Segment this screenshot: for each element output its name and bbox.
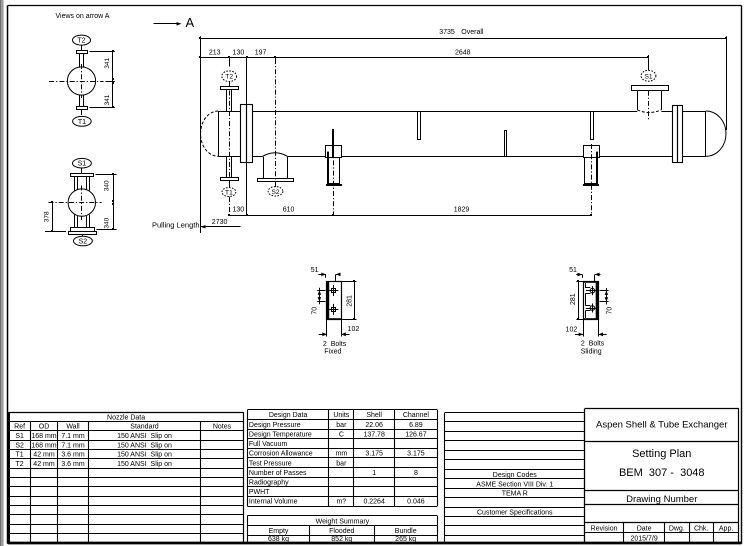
svg-text:bar: bar: [336, 422, 347, 429]
baffle 2: [418, 112, 421, 140]
svg-text:168 mm: 168 mm: [31, 442, 56, 449]
svg-text:Full Vacuum: Full Vacuum: [249, 441, 288, 448]
svg-text:341: 341: [104, 94, 111, 105]
svg-text:197: 197: [255, 49, 267, 56]
end view nozzle T1: [77, 95, 88, 115]
svg-text:Shell: Shell: [366, 412, 382, 419]
svg-text:168 mm: 168 mm: [31, 433, 56, 440]
svg-text:Chk.: Chk.: [694, 525, 708, 532]
nozzle S2 (bottom): [258, 153, 294, 187]
sliding slot 2: [585, 293, 596, 318]
svg-text:Nozzle Data: Nozzle Data: [107, 414, 145, 421]
rear barrel and right head: [683, 111, 726, 156]
svg-text:137.78: 137.78: [363, 431, 385, 438]
svg-text:App.: App.: [719, 525, 733, 532]
svg-text:150 ANSI Slip on: 150 ANSI Slip on: [117, 433, 172, 440]
svg-text:0.2264: 0.2264: [363, 499, 385, 506]
svg-text:340: 340: [103, 180, 110, 191]
svg-text:Notes: Notes: [213, 424, 232, 431]
svg-text:281: 281: [347, 295, 354, 307]
svg-text:0.046: 0.046: [407, 499, 425, 506]
svg-text:340: 340: [103, 217, 110, 228]
svg-text:102: 102: [348, 326, 360, 333]
svg-text:265 kg: 265 kg: [395, 536, 416, 543]
balloon T2 (end view): [73, 35, 91, 45]
svg-text:T1: T1: [16, 452, 24, 459]
svg-text:2 Bolts: 2 Bolts: [581, 340, 605, 347]
svg-text:281: 281: [570, 293, 577, 305]
end view nozzle S2 + base: [69, 215, 97, 237]
balloon S1: [641, 70, 656, 81]
fixed dimension 102: [319, 320, 360, 337]
window edge strip: [0, 0, 4, 546]
svg-text:OD: OD: [39, 424, 50, 431]
nozzle S1 (top): [632, 55, 669, 119]
dimension 378 (end view S): [44, 201, 66, 232]
balloon T1: [222, 188, 236, 197]
channel barrel: [218, 112, 241, 157]
svg-text:130: 130: [233, 49, 245, 56]
svg-text:2015/7/9: 2015/7/9: [630, 536, 657, 543]
sliding dimension 102: [566, 320, 607, 337]
svg-text:2730: 2730: [212, 219, 228, 226]
svg-text:Pulling Length: Pulling Length: [152, 221, 200, 230]
svg-text:42 mm: 42 mm: [33, 461, 55, 468]
baffle 3: [505, 131, 507, 157]
svg-text:T1: T1: [78, 119, 86, 126]
svg-text:Design Codes: Design Codes: [493, 472, 537, 479]
svg-text:PWHT: PWHT: [249, 489, 270, 496]
svg-text:Bundle: Bundle: [395, 528, 417, 535]
svg-text:Number of Passes: Number of Passes: [249, 470, 307, 477]
svg-text:Fixed: Fixed: [324, 348, 341, 355]
svg-text:150 ANSI Slip on: 150 ANSI Slip on: [117, 461, 172, 468]
svg-text:Overall: Overall: [461, 29, 484, 36]
svg-text:Test Pressure: Test Pressure: [249, 460, 292, 467]
sliding base plate: [583, 281, 599, 320]
svg-text:7.1 mm: 7.1 mm: [61, 433, 85, 440]
svg-text:Revision: Revision: [591, 525, 618, 532]
design codes / customer specifications column: [445, 413, 585, 543]
svg-text:126.67: 126.67: [405, 431, 427, 438]
baffle 1: [332, 129, 334, 157]
svg-text:1829: 1829: [454, 207, 470, 214]
svg-text:3.175: 3.175: [365, 451, 383, 458]
svg-text:130: 130: [232, 207, 244, 214]
svg-text:213: 213: [209, 49, 221, 56]
svg-text:3735: 3735: [439, 29, 455, 36]
svg-text:70: 70: [606, 307, 613, 315]
svg-text:Drawing Number: Drawing Number: [626, 494, 697, 505]
svg-text:3.6 mm: 3.6 mm: [61, 461, 85, 468]
label 2 Bolts Sliding: [581, 340, 605, 355]
sliding dimension 70: [600, 288, 614, 314]
end view nozzle T2: [77, 45, 88, 67]
svg-text:Date: Date: [637, 525, 652, 532]
nozzle data table: [9, 412, 244, 542]
svg-text:S1: S1: [78, 161, 87, 168]
svg-text:C: C: [339, 431, 344, 438]
sliding dimension 281: [570, 280, 583, 320]
svg-text:Customer Specifications: Customer Specifications: [477, 510, 553, 517]
nozzle T1 (bottom): [221, 156, 239, 187]
balloon S2 (end view): [74, 236, 93, 246]
svg-text:m?: m?: [336, 499, 346, 506]
design data table: [247, 410, 437, 507]
svg-text:852 kg: 852 kg: [331, 536, 352, 543]
svg-text:341: 341: [104, 57, 111, 68]
baffle 4: [591, 112, 594, 140]
svg-text:Corrosion Allowance: Corrosion Allowance: [249, 451, 313, 458]
svg-text:Standard: Standard: [130, 424, 159, 431]
svg-text:Weight Summary: Weight Summary: [316, 518, 370, 525]
svg-text:Flooded: Flooded: [329, 528, 354, 535]
extension line channel flange joint: [246, 59, 248, 215]
svg-text:Wall: Wall: [66, 424, 80, 431]
fixed bolt hole 1: [329, 285, 338, 296]
S2 centreline: [275, 59, 277, 187]
svg-text:bar: bar: [336, 460, 347, 467]
dimension 340 / 340 (end view S): [96, 173, 117, 230]
extension line left tangent: [200, 36, 202, 233]
svg-text:Design Data: Design Data: [269, 412, 308, 419]
svg-text:Setting Plan: Setting Plan: [632, 448, 691, 460]
svg-text:S2: S2: [79, 239, 88, 246]
svg-text:6.89: 6.89: [409, 422, 423, 429]
support 2 (sliding saddle): [583, 144, 600, 215]
svg-text:T2: T2: [225, 74, 233, 81]
dimension row 130 610 1829: [228, 207, 592, 217]
end view nozzle S1: [71, 168, 94, 191]
svg-text:S1: S1: [15, 433, 24, 440]
svg-text:70: 70: [312, 307, 319, 315]
svg-text:42 mm: 42 mm: [33, 452, 55, 459]
nozzle T2 (top): [221, 59, 239, 112]
svg-text:Design Temperature: Design Temperature: [249, 431, 312, 438]
svg-text:22.06: 22.06: [365, 422, 383, 429]
rear girth flange pair: [673, 106, 683, 163]
svg-text:638 kg: 638 kg: [268, 536, 289, 543]
svg-text:Sliding: Sliding: [581, 348, 602, 355]
dimension 3735 Overall: [199, 29, 727, 39]
dimension row 213 130 197 2648: [199, 49, 649, 61]
weight summary table: [247, 516, 437, 544]
balloon T1 (end view): [73, 116, 92, 126]
svg-text:7.1 mm: 7.1 mm: [61, 442, 85, 449]
sliding slot 1: [585, 283, 596, 295]
svg-text:mm: mm: [336, 451, 348, 458]
dimension 341 / 341 (end view T): [90, 50, 115, 108]
svg-text:TEMA R: TEMA R: [502, 491, 528, 498]
svg-text:A: A: [185, 15, 194, 30]
channel/shell girth flange pair: [241, 105, 253, 163]
svg-text:Units: Units: [333, 412, 349, 419]
view arrow A: [154, 15, 195, 30]
fixed base plate: [327, 281, 342, 320]
fixed bolt hole 2: [329, 304, 338, 315]
title block: [585, 409, 739, 543]
svg-text:Aspen Shell & Tube Exchanger: Aspen Shell & Tube Exchanger: [596, 420, 728, 431]
balloon T2: [222, 71, 237, 82]
svg-text:S2: S2: [271, 189, 279, 196]
svg-text:Ref: Ref: [14, 424, 25, 431]
svg-text:BEM 307 - 3048: BEM 307 - 3048: [619, 467, 705, 479]
svg-text:378: 378: [44, 211, 51, 222]
label 2 Bolts Fixed: [323, 341, 347, 356]
extension line right tangent: [726, 36, 728, 130]
svg-text:Design Pressure: Design Pressure: [249, 422, 301, 429]
svg-text:150 ANSI Slip on: 150 ANSI Slip on: [117, 452, 172, 459]
sliding dimension 51: [569, 267, 600, 281]
svg-text:Dwg.: Dwg.: [669, 525, 685, 532]
svg-text:3.175: 3.175: [407, 451, 425, 458]
svg-text:Views on arrow A: Views on arrow A: [56, 13, 110, 20]
balloon S1 (end view): [73, 158, 92, 168]
svg-text:Radiography: Radiography: [249, 479, 289, 486]
svg-text:T2: T2: [16, 461, 24, 468]
label: Views on arrow A: [56, 13, 110, 20]
balloon S2: [268, 187, 283, 196]
end view T: channel circle: [49, 64, 103, 98]
svg-text:8: 8: [414, 470, 418, 477]
svg-text:Empty: Empty: [269, 528, 289, 535]
support 1 (fixed saddle): [326, 140, 343, 215]
svg-text:1: 1: [372, 470, 376, 477]
shell barrel: [252, 112, 672, 157]
dimension 2730 Pulling Length: [152, 219, 241, 229]
svg-text:2 Bolts: 2 Bolts: [323, 341, 347, 348]
left head (channel cover, hidden outline): [201, 111, 219, 156]
fixed dimension 51: [311, 267, 341, 281]
svg-text:T2: T2: [77, 38, 85, 45]
svg-text:Channel: Channel: [403, 412, 430, 419]
T1/T2 centreline: [229, 91, 231, 216]
svg-text:150 ANSI Slip on: 150 ANSI Slip on: [117, 442, 172, 449]
svg-text:S1: S1: [644, 73, 652, 80]
svg-text:T1: T1: [225, 190, 233, 197]
fixed dimension 281: [341, 280, 356, 320]
svg-text:102: 102: [566, 326, 578, 333]
svg-text:Internal Volume: Internal Volume: [249, 499, 298, 506]
svg-text:ASME Section VIII Div. 1: ASME Section VIII Div. 1: [476, 481, 553, 488]
svg-text:51: 51: [311, 267, 319, 274]
svg-text:51: 51: [569, 267, 577, 274]
end view S: shell circle: [49, 186, 102, 221]
fixed dimension 70: [312, 288, 326, 315]
svg-text:610: 610: [283, 207, 295, 214]
svg-text:2648: 2648: [455, 50, 471, 57]
svg-text:S2: S2: [15, 442, 24, 449]
svg-text:3.6 mm: 3.6 mm: [61, 452, 85, 459]
